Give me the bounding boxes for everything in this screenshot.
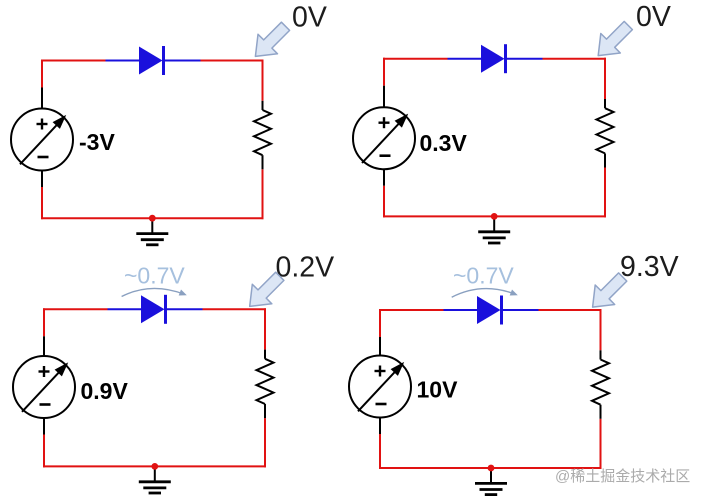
resistor R2: bottom lead [604,153,606,167]
wire: top horizontal segment left of diode (circuit 4) [379,309,444,311]
resistor R4: zigzag body [592,360,609,405]
wire: top horizontal segment left of diode (circuit 3) [43,308,108,310]
wire: left vertical segment above source (circuit 4) [379,309,381,337]
voltage source V4: top lead [379,337,381,356]
wire: right vertical segment below resistor (circuit 1) [262,169,264,219]
wire: left vertical segment above source (circuit 3) [43,308,45,336]
resistor R2: top lead [604,99,606,108]
voltage source V1: diagonal arrow line [20,116,65,164]
wire: right vertical segment above resistor (circuit 4) [600,309,602,350]
node: ground junction dot (circuit 3) [151,463,158,470]
voltage source V3: diagonal arrow line [22,364,67,412]
diode D2: anode lead wire [448,58,482,60]
wire: top horizontal segment left of diode (circuit 2) [383,58,448,60]
node: ground junction dot (circuit 1) [149,215,156,222]
ground symbol (circuit 1): bar 2 [141,238,164,241]
svg-text:10V: 10V [417,377,459,403]
voltage source V4: diagonal arrow line [358,363,403,411]
svg-text:~0.7V: ~0.7V [124,262,185,288]
resistor R2: zigzag body [597,108,614,153]
ground symbol (circuit 2): bar 1 [478,230,510,233]
voltage source V4: bottom lead [379,418,381,435]
diode D3: anode lead wire [108,308,142,310]
voltage source V3: minus sign [40,403,51,406]
wire: bottom horizontal segment (circuit 1) [41,217,264,219]
voltage source V4: circle body [349,356,411,418]
curved arrow over diode D4 [452,289,516,298]
block arrow pointer at output node (circuit 3) [250,272,284,306]
wire: left vertical segment below source (circuit 1) [41,187,43,219]
voltage source V3: diagonal arrowhead [55,362,69,376]
voltage source V3: bottom lead [43,418,45,435]
voltage source V2: minus sign [380,154,391,157]
diode D1: triangle [139,47,163,75]
wire: right vertical segment above resistor (circuit 1) [262,60,264,101]
diode D2: triangle [481,45,505,73]
diode D2: cathode bar [504,44,507,73]
diode D3: cathode bar [164,295,167,324]
svg-text:0V: 0V [636,1,671,33]
voltage source V1: top lead [41,88,43,109]
diode D3: triangle [141,295,165,323]
wire: top horizontal segment right of diode (circuit 1) [201,60,264,62]
wire: left vertical segment below source (circuit 2) [383,186,385,218]
diode D4: anode lead wire [444,309,478,311]
wire: bottom horizontal segment (circuit 4) [379,467,602,469]
voltage source V4: minus sign [376,403,387,406]
wire: top horizontal segment right of diode (circuit 4) [539,309,602,311]
svg-text:0.2V: 0.2V [276,252,335,284]
svg-text:9.3V: 9.3V [620,251,679,283]
voltage source V4: plus sign [375,370,386,372]
resistor R1: zigzag body [254,110,271,155]
ground symbol (circuit 1): bar 3 [146,243,158,246]
svg-text:0.3V: 0.3V [420,130,468,156]
resistor R4: bottom lead [600,405,602,419]
ground symbol (circuit 2): bar 2 [483,236,506,239]
voltage source V2: circle body [353,107,415,169]
wire: bottom horizontal segment (circuit 3) [43,465,266,467]
voltage source V3: top lead [43,336,45,356]
voltage source V1: circle body [11,109,73,171]
wire: top horizontal segment right of diode (circuit 3) [203,308,267,310]
wire: left vertical segment above source (circuit 1) [41,60,43,88]
ground symbol (circuit 4): bar 2 [480,488,503,491]
ground symbol (circuit 3): bar 1 [139,480,171,483]
ground symbol (circuit 4): stem [490,468,492,483]
ground symbol (circuit 4): bar 3 [485,493,497,496]
diode D1: cathode bar [162,46,165,75]
wire: right vertical segment below resistor (circuit 4) [600,419,602,469]
ground symbol (circuit 4): bar 1 [475,482,507,485]
diode D4: cathode lead wire [502,309,539,311]
wire: top horizontal segment left of diode (circuit 1) [41,60,106,62]
ground symbol (circuit 1): bar 1 [136,232,168,235]
curved arrow over diode D3 [122,288,185,296]
diode D4: triangle [477,296,501,324]
wire: right vertical segment below resistor (circuit 2) [604,168,606,218]
diode D1: anode lead wire [106,60,140,62]
wire: left vertical segment below source (circuit 4) [379,434,381,469]
wire: right vertical segment above resistor (circuit 2) [604,58,606,99]
diode D1: cathode lead wire [164,60,201,62]
resistor R3: top lead [264,350,266,359]
voltage source V2: bottom lead [383,169,385,186]
ground symbol (circuit 1): stem [151,218,153,233]
ground symbol (circuit 2): stem [493,216,495,231]
voltage source V3: circle body [13,356,75,418]
wire: left vertical segment above source (circuit 2) [383,58,385,86]
voltage source V2: top lead [383,86,385,108]
resistor R1: top lead [262,101,264,110]
wire: top horizontal segment right of diode (circuit 2) [543,58,607,60]
wire: right vertical segment above resistor (circuit 3) [264,308,266,349]
voltage source V3: plus sign [39,370,50,372]
ground symbol (circuit 3): bar 3 [149,492,161,495]
svg-text:@稀土掘金技术社区: @稀土掘金技术社区 [555,468,690,485]
voltage source V4: diagonal arrowhead [391,362,405,376]
ground symbol (circuit 2): bar 3 [488,242,500,245]
diode D2: cathode lead wire [506,58,543,60]
diode D4: cathode bar [500,296,503,325]
node: ground junction dot (circuit 4) [488,465,495,472]
svg-text:~0.7V: ~0.7V [453,263,514,289]
voltage source V1: diagonal arrowhead [53,115,67,129]
voltage source V1: minus sign [38,156,49,159]
resistor R4: top lead [600,350,602,359]
svg-text:-3V: -3V [79,129,115,155]
wire: left vertical segment below source (circuit 3) [43,435,45,468]
resistor R1: bottom lead [262,155,264,169]
block arrow pointer at output node (circuit 4) [593,273,627,307]
wire: right vertical segment below resistor (circuit 3) [264,418,266,467]
block arrow pointer at output node (circuit 2) [598,21,632,55]
ground symbol (circuit 3): bar 2 [143,486,166,489]
voltage source V2: diagonal arrow line [362,115,407,163]
wire: bottom horizontal segment (circuit 2) [383,215,606,217]
voltage source V2: diagonal arrowhead [395,114,409,128]
diode D3: cathode lead wire [166,308,203,310]
block arrow pointer at output node (circuit 1) [255,22,289,56]
ground symbol (circuit 3): stem [154,466,156,481]
svg-text:0.9V: 0.9V [81,378,129,404]
resistor R3: zigzag body [257,359,274,404]
svg-text:0V: 0V [292,2,327,34]
voltage source V1: plus sign [37,123,48,125]
node: ground junction dot (circuit 2) [491,213,498,220]
voltage source V1: bottom lead [41,171,43,188]
voltage source V2: plus sign [379,121,390,123]
resistor R3: bottom lead [264,404,266,418]
